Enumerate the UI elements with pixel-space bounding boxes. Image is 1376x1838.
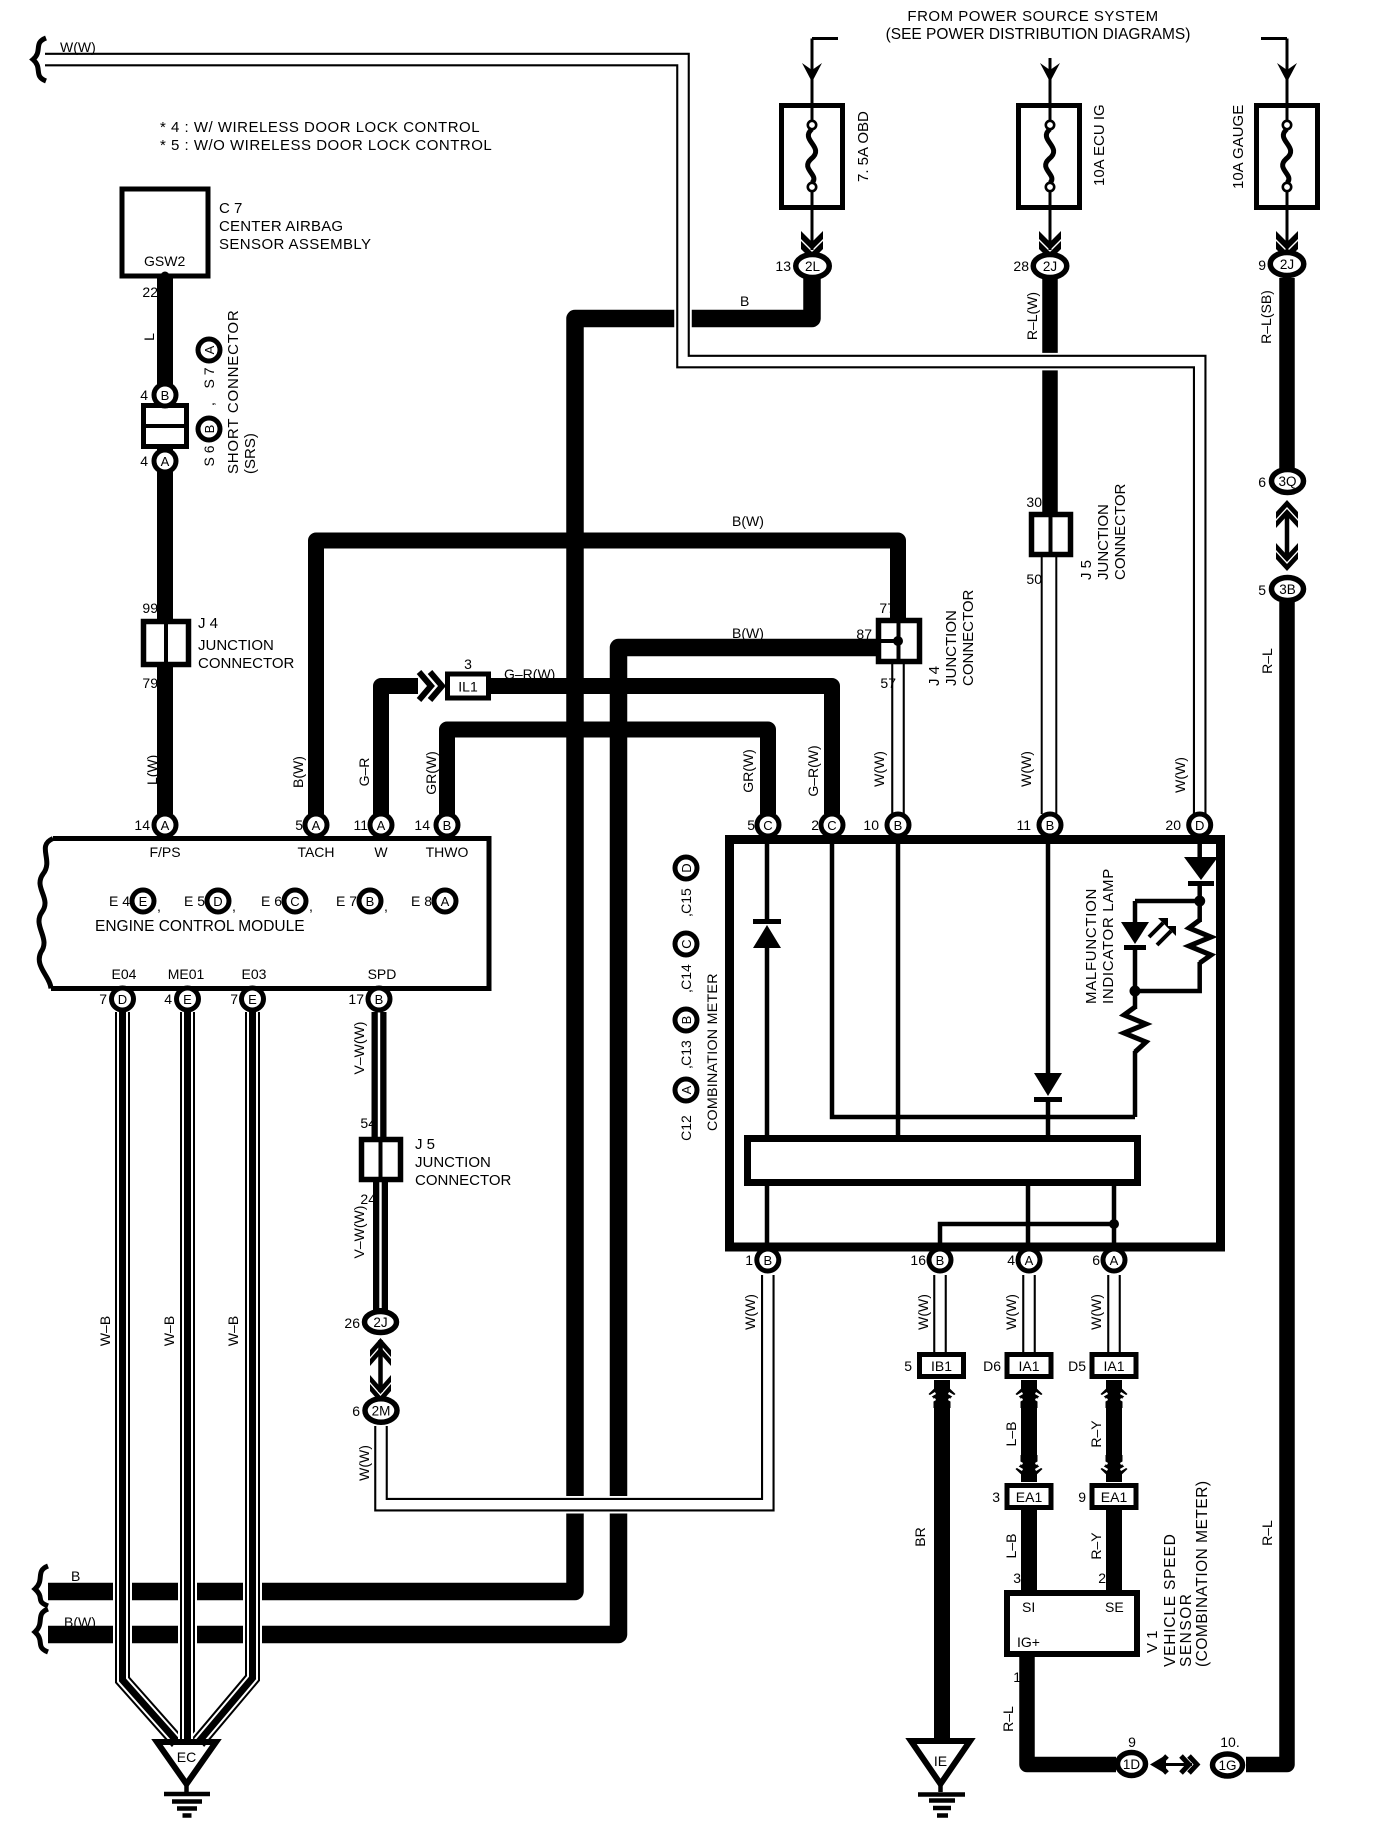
svg-text:W–B: W–B [161,1316,177,1346]
wire W(W) : meter pin 4A down to IA1 [1022,1275,1036,1353]
svg-text:2L: 2L [805,259,821,274]
fuse 10A GAUGE : feed elbow and arrow [1261,39,1287,104]
EA1 9 arrow down [1101,1455,1128,1482]
svg-text:5: 5 [904,1358,912,1374]
svg-text:GR(W): GR(W) [423,751,439,795]
svg-text:4: 4 [164,991,172,1007]
fuse ECU IG output line + arrow into 2J [1049,208,1052,250]
svg-text:W(W): W(W) [60,39,96,55]
wire W(W) : J5 pin 50 down to meter pin 11B [1039,555,1059,814]
IA1 D6 arrow up [1016,1381,1043,1408]
arrows between 1D and 1G [1163,1763,1192,1766]
connector oval 2J (SPD chain) [365,1312,397,1333]
svg-text:,: , [232,898,236,914]
meter bottom pin 16 B [929,1249,951,1271]
svg-text:2M: 2M [372,1404,391,1419]
wire L-B lower : EA1 to V1 pin 3 [1021,1509,1037,1592]
ECM bottom pin E04 7 D [112,988,134,1010]
svg-text:A: A [161,454,170,469]
wire B(W) : from J4 pin 87 left, down, left to off-page [48,648,876,1635]
svg-text:W: W [374,844,388,860]
arrows between 3Q and 3B [1285,512,1290,558]
svg-text:3: 3 [464,656,472,672]
svg-text:W(W): W(W) [1003,1294,1019,1330]
svg-text:D6: D6 [983,1358,1001,1374]
fuse 10A ECU IG box [1019,106,1080,209]
label circle S7 A [198,339,220,361]
svg-text:57: 57 [880,675,896,691]
IL1 chevrons [419,672,442,700]
svg-text:A: A [1025,1253,1034,1268]
meter top pin 5 C [757,814,779,836]
svg-text:17: 17 [348,991,364,1007]
svg-text:W(W): W(W) [915,1294,931,1330]
svg-text:EA1: EA1 [1101,1489,1128,1505]
fuse 10A GAUGE box [1257,106,1318,209]
svg-text:SPD: SPD [368,966,397,982]
svg-text:,: , [157,898,161,914]
short connector pin 4 B [154,384,176,406]
connector oval 1G [1213,1754,1243,1776]
svg-text:A: A [679,1085,694,1094]
svg-text:SENSOR ASSEMBLY: SENSOR ASSEMBLY [219,236,371,253]
svg-text:50: 50 [1026,571,1042,587]
wire R-L(SB) : fuse3 2J oval down to 3Q [1279,278,1295,469]
svg-text:14: 14 [134,817,150,833]
svg-text:GR(W): GR(W) [740,749,756,793]
svg-text:1: 1 [1013,1669,1021,1685]
svg-text:14: 14 [414,817,430,833]
svg-text:6: 6 [352,1403,360,1419]
svg-text:E: E [139,894,148,909]
IL1 connector box [448,674,489,698]
wire W-B 2 : ECM ME01 pin down to ground EC [178,1012,197,1742]
svg-text:* 4 : W/ WIRELESS DOOR LOCK CO: * 4 : W/ WIRELESS DOOR LOCK CONTROL [160,119,480,136]
svg-text:ME01: ME01 [168,966,205,982]
svg-text:R–L(W): R–L(W) [1024,292,1040,340]
svg-text:,: , [201,402,217,406]
ground IE bars [918,1795,965,1816]
svg-text:B: B [936,1253,945,1268]
ECM internal pin E8 A [434,890,456,912]
svg-text:E03: E03 [242,966,267,982]
resistor R2 (series) [1124,1007,1146,1052]
ECM top pin TACH 5 A [305,814,327,836]
wire R-Y lower : EA1 to V1 pin 2 [1106,1509,1122,1592]
wire W(W) main : off-page top-left right, down, right, down to meter pin 20D [45,60,1200,814]
svg-text:C12: C12 [678,1115,694,1141]
svg-text:4: 4 [1007,1252,1015,1268]
svg-text:THWO: THWO [426,844,469,860]
svg-text:EA1: EA1 [1016,1489,1043,1505]
svg-text:E 7: E 7 [336,893,357,909]
IA1 connector box (D5) [1092,1355,1136,1377]
svg-text:A: A [161,818,170,833]
svg-text:B: B [161,388,170,403]
svg-text:V–W(W): V–W(W) [351,1206,367,1259]
svg-text:INDICATOR LAMP: INDICATOR LAMP [1100,868,1117,1004]
svg-text:5: 5 [1258,582,1266,598]
svg-text:(SEE POWER DISTRIBUTION DIAGRA: (SEE POWER DISTRIBUTION DIAGRAMS) [886,26,1191,43]
meter gauge bar [748,1139,1138,1183]
wire L / L(W) : C7 GSW2 down to ECM F/PS pin [157,276,173,814]
LED malfunction indicator lamp [1121,918,1176,950]
svg-text:2: 2 [1098,1570,1106,1586]
svg-text:,: , [678,989,694,993]
svg-text:TACH: TACH [297,844,334,860]
C7 connector nub [161,272,170,281]
svg-text:B: B [763,1253,772,1268]
label circle C14 C [675,933,697,955]
svg-text:10A GAUGE: 10A GAUGE [1230,105,1247,189]
off-page brace B bottom-left [35,1566,48,1606]
svg-text:MALFUNCTION: MALFUNCTION [1083,888,1100,1004]
svg-text:3: 3 [1013,1570,1021,1586]
svg-text:C14: C14 [678,964,694,990]
svg-text:W(W): W(W) [871,751,887,787]
ECM top pin THWO 14 B [436,814,458,836]
svg-text:54: 54 [360,1115,376,1131]
svg-text:(COMBINATION METER): (COMBINATION METER) [1194,1480,1211,1667]
wire W-B 1 : ECM E04 pin down to ground EC [123,1012,178,1742]
meter internal wires [767,840,1200,1250]
THIN DOUBLE WIRES (white core) [45,60,1200,1742]
svg-text:IA1: IA1 [1103,1358,1124,1374]
svg-text:,: , [678,1065,694,1069]
wire W(W) : meter pin 1B down, left, up from 2M [381,1275,768,1505]
svg-text:W(W): W(W) [742,1294,758,1330]
IA1 D5 arrow up [1101,1381,1128,1408]
J4 junction connector (left) box [144,622,189,665]
meter top pin 10 B [887,814,909,836]
svg-text:L(W): L(W) [144,755,160,785]
svg-text:CENTER AIRBAG: CENTER AIRBAG [219,218,343,235]
short connector (SRS) box [144,406,187,447]
label circle C12 A [675,1079,697,1101]
J5 junction connector (right) box [1032,515,1071,555]
diode D1 above gauge (pin 5C branch) [753,919,781,948]
svg-text:B(W): B(W) [64,1614,96,1630]
svg-text:C: C [290,894,299,909]
wire W(W) : meter pin 16B down to IB1 [933,1275,947,1353]
svg-text:IL1: IL1 [458,679,478,695]
svg-text:S 6: S 6 [201,445,217,466]
svg-text:V–W(W): V–W(W) [351,1022,367,1075]
svg-text:F/PS: F/PS [149,844,180,860]
svg-text:C 7: C 7 [219,200,242,217]
wire G-R : ECM W pin up then right to IL1 [381,686,418,833]
svg-text:1G: 1G [1218,1758,1236,1773]
wire R-L right : 3B down, left into 1G [1246,602,1287,1765]
meter top pin 2 C [821,814,843,836]
svg-text:A: A [312,818,321,833]
svg-text:10A ECU IG: 10A ECU IG [1091,104,1108,186]
svg-text:,: , [678,913,694,917]
svg-text:C13: C13 [678,1040,694,1066]
junction dot meter LED bottom [1130,986,1141,997]
svg-text:B: B [1046,818,1055,833]
svg-text:ENGINE CONTROL MODULE: ENGINE CONTROL MODULE [95,918,305,935]
svg-text:G–R(W): G–R(W) [805,745,821,796]
svg-text:R–Y: R–Y [1088,1420,1104,1448]
svg-text:CONNECTOR: CONNECTOR [1112,483,1129,580]
svg-text:B(W): B(W) [290,756,306,788]
white stripes of V-W(W) wires [379,1012,381,1308]
svg-text:B: B [366,894,375,909]
ECM internal pin E4 E [132,890,154,912]
ECM internal pin E6 C [284,890,306,912]
svg-text:79: 79 [142,675,158,691]
svg-text:JUNCTION: JUNCTION [943,610,960,686]
arrows between 2J and 2M [378,1340,383,1392]
svg-text:J 5: J 5 [1078,560,1095,580]
resistor R1 (parallel with LED) [1189,920,1211,963]
svg-text:W(W): W(W) [1172,757,1188,793]
V1 vehicle speed sensor box [1007,1593,1137,1654]
connector oval 2J (GAUGE) [1270,253,1304,276]
svg-text:SHORT CONNECTOR: SHORT CONNECTOR [225,309,242,474]
EA1 connector box (3) [1007,1486,1051,1508]
ECM bottom pin SPD 17 B [368,988,390,1010]
junction dot meter 16B/6A [1109,1219,1119,1229]
wire R-Y : IA1 to EA1 [1106,1380,1122,1482]
meter top pin 20 D [1189,814,1211,836]
svg-text:J 4: J 4 [198,615,218,632]
IA1 connector box (D6) [1007,1355,1051,1377]
J5 junction connector (left) box [362,1140,401,1180]
combination meter box [730,840,1221,1248]
svg-text:26: 26 [344,1315,360,1331]
svg-text:CONNECTOR: CONNECTOR [415,1172,512,1189]
junction dot meter 20D branch [1194,896,1205,907]
svg-text:JUNCTION: JUNCTION [1095,504,1112,580]
svg-text:D5: D5 [1068,1358,1086,1374]
wire W(W) : J4 pin 57 down to meter pin 10B [889,664,907,814]
fuse 10A ECU IG : feed arrow [1049,58,1052,103]
svg-text:7: 7 [99,991,107,1007]
ground EC bars [164,1794,210,1816]
svg-text:B(W): B(W) [732,625,764,641]
svg-text:1: 1 [745,1252,753,1268]
svg-text:2J: 2J [1280,257,1294,272]
IB1 arrow up [929,1381,956,1408]
svg-text:R–L(SB): R–L(SB) [1258,290,1274,344]
svg-text:D: D [1195,818,1204,833]
svg-text:FROM POWER SOURCE SYSTEM: FROM POWER SOURCE SYSTEM [907,8,1158,25]
svg-text:IB1: IB1 [931,1358,952,1374]
svg-text:SE: SE [1105,1599,1124,1615]
label circle C13 B [675,1009,697,1031]
svg-text:,: , [384,898,388,914]
wire W-B 3 : ECM E03 pin down to ground EC [199,1012,253,1742]
svg-text:9: 9 [1258,257,1266,273]
THICK WIRES [48,276,1287,1765]
svg-text:10.: 10. [1220,1734,1239,1750]
wire G-R(W) : IL1 right, then down to meter pin 2C [491,686,832,814]
svg-text:CONNECTOR: CONNECTOR [960,589,977,686]
svg-text:W(W): W(W) [356,1445,372,1481]
svg-text:22: 22 [142,284,158,300]
svg-text:SI: SI [1022,1599,1035,1615]
svg-text:3: 3 [992,1489,1000,1505]
wire GR(W) : ECM THWO pin up, right, down to meter pin 5C [447,730,768,834]
svg-text:3B: 3B [1279,582,1296,597]
svg-text:V 1: V 1 [1144,1630,1161,1653]
wire W(W) : meter pin 6A down to IA1 [1107,1275,1121,1353]
svg-text:11: 11 [353,817,368,833]
ECM internal pin E5 D [207,890,229,912]
svg-text:7. 5A OBD: 7. 5A OBD [855,111,872,182]
ECM bottom pin E03 7 E [242,988,264,1010]
wire R-L(W) : fuse2 2J oval down to J5 junction connector [1042,279,1058,514]
svg-text:5: 5 [747,817,755,833]
svg-text:A: A [441,894,450,909]
meter top pin 11 B [1039,814,1061,836]
svg-text:W(W): W(W) [1018,751,1034,787]
svg-text:L–B: L–B [1003,1422,1019,1447]
svg-text:E 5: E 5 [184,893,205,909]
svg-text:D: D [213,894,222,909]
svg-text:GSW2: GSW2 [144,253,185,269]
connector oval 3Q [1272,470,1304,493]
wire V-W(W) : ECM SPD pin down to J5 [372,1012,387,1139]
J4 junction connector (right) box [879,621,920,662]
svg-text:* 5 : W/O WIRELESS DOOR LOCK C: * 5 : W/O WIRELESS DOOR LOCK CONTROL [160,137,492,154]
svg-text:2J: 2J [1043,259,1057,274]
svg-text:B(W): B(W) [732,513,764,529]
svg-text:30: 30 [1026,494,1042,510]
svg-text:R–L: R–L [1259,648,1275,674]
svg-text:87: 87 [856,626,872,642]
svg-text:24: 24 [360,1191,376,1207]
svg-text:B: B [71,1568,80,1584]
label circle S6 B [198,418,220,440]
svg-text:E: E [183,992,192,1007]
fuse 7.5A OBD box [782,106,843,209]
svg-text:JUNCTION: JUNCTION [415,1154,491,1171]
diode D2 (pin 11B branch) [1034,1073,1062,1102]
connector oval 2M [365,1399,397,1423]
off-page brace B(W) bottom-left [35,1609,48,1652]
svg-text:10: 10 [863,817,879,833]
svg-text:11: 11 [1016,817,1031,833]
svg-text:2J: 2J [373,1315,387,1330]
svg-text:D: D [679,863,694,872]
svg-text:IE: IE [934,1753,947,1769]
svg-text:G–R: G–R [356,758,372,787]
svg-text:B: B [894,818,903,833]
svg-text:C: C [763,818,772,833]
svg-text:A: A [1110,1253,1119,1268]
svg-text:6: 6 [1092,1252,1100,1268]
svg-text:R–L: R–L [1259,1520,1275,1546]
diode D3 (pin 20D branch) [1184,857,1218,886]
off-page brace W(W) top-left [33,38,46,81]
connector oval 2L [796,255,830,278]
svg-text:COMBINATION METER: COMBINATION METER [705,973,721,1131]
wire B(W) TACH : ECM TACH pin up, right, down into J4 pin 77 [316,541,898,834]
svg-text:G–R(W): G–R(W) [504,666,555,682]
svg-text:2: 2 [811,817,819,833]
C7 center airbag sensor box [122,189,208,276]
svg-text:C: C [679,939,694,948]
ground EC triangle [157,1742,216,1792]
wire L-B : IA1 to EA1 [1021,1380,1037,1482]
ECM engine control module box [39,839,489,989]
svg-text:W(W): W(W) [1088,1294,1104,1330]
svg-text:9: 9 [1128,1734,1136,1750]
svg-text:A: A [377,818,386,833]
svg-text:C15: C15 [678,888,694,914]
svg-text:E 8: E 8 [411,893,432,909]
svg-text:99: 99 [142,600,158,616]
short connector pin 4 A [154,450,176,472]
ECM top pin F/PS 14 A [154,814,176,836]
svg-text:R–Y: R–Y [1088,1532,1104,1560]
svg-text:W–B: W–B [225,1316,241,1346]
svg-text:L–B: L–B [1003,1534,1019,1559]
svg-text:R–L: R–L [1000,1706,1016,1732]
fuse OBD output line + arrow into 2L [811,208,814,250]
svg-text:,: , [309,898,313,914]
svg-text:7: 7 [230,991,238,1007]
svg-text:5: 5 [295,817,303,833]
svg-text:J 5: J 5 [415,1136,435,1153]
svg-text:(SRS): (SRS) [242,433,259,474]
svg-text:VEHICLE SPEED: VEHICLE SPEED [1162,1533,1179,1667]
IB1 connector box [920,1355,964,1377]
svg-text:C: C [827,818,836,833]
svg-text:A: A [202,345,217,354]
svg-text:B: B [443,818,452,833]
svg-text:4: 4 [140,453,148,469]
ECM bottom pin ME01 4 E [177,988,199,1010]
svg-text:13: 13 [775,258,791,274]
connector oval 3B [1272,578,1304,601]
fuse 7.5A OBD : feed elbow and arrow [812,39,838,104]
svg-text:B: B [679,1016,694,1025]
svg-text:20: 20 [1165,817,1181,833]
svg-text:E: E [248,992,257,1007]
svg-text:IA1: IA1 [1018,1358,1039,1374]
svg-text:4: 4 [140,387,148,403]
svg-text:E04: E04 [112,966,137,982]
svg-text:9: 9 [1078,1489,1086,1505]
svg-text:28: 28 [1013,258,1029,274]
ECM internal pin E7 B [359,890,381,912]
ECM top pin W 11 A [370,814,392,836]
EA1 3 arrow down [1016,1455,1043,1482]
label circle C15 D [675,857,697,879]
svg-text:1D: 1D [1123,1757,1141,1772]
svg-text:D: D [118,992,127,1007]
connector oval 2J (ECU IG) [1033,255,1067,278]
wire V-W(W) lower : J5 down to 2J oval [373,1179,388,1310]
svg-text:E 6: E 6 [261,893,282,909]
svg-text:BR: BR [912,1527,928,1546]
svg-text:77: 77 [879,600,895,616]
svg-text:6: 6 [1258,474,1266,490]
svg-text:J 4: J 4 [926,666,943,686]
EA1 connector box (9) [1092,1486,1136,1508]
svg-text:JUNCTION: JUNCTION [198,637,274,654]
meter bottom pin 6 A [1103,1249,1125,1271]
meter bottom pin 4 A [1018,1249,1040,1271]
svg-text:EC: EC [177,1749,196,1765]
connector oval 1D [1118,1753,1146,1776]
svg-text:B: B [740,293,749,309]
meter bottom pin 1 B [757,1249,779,1271]
